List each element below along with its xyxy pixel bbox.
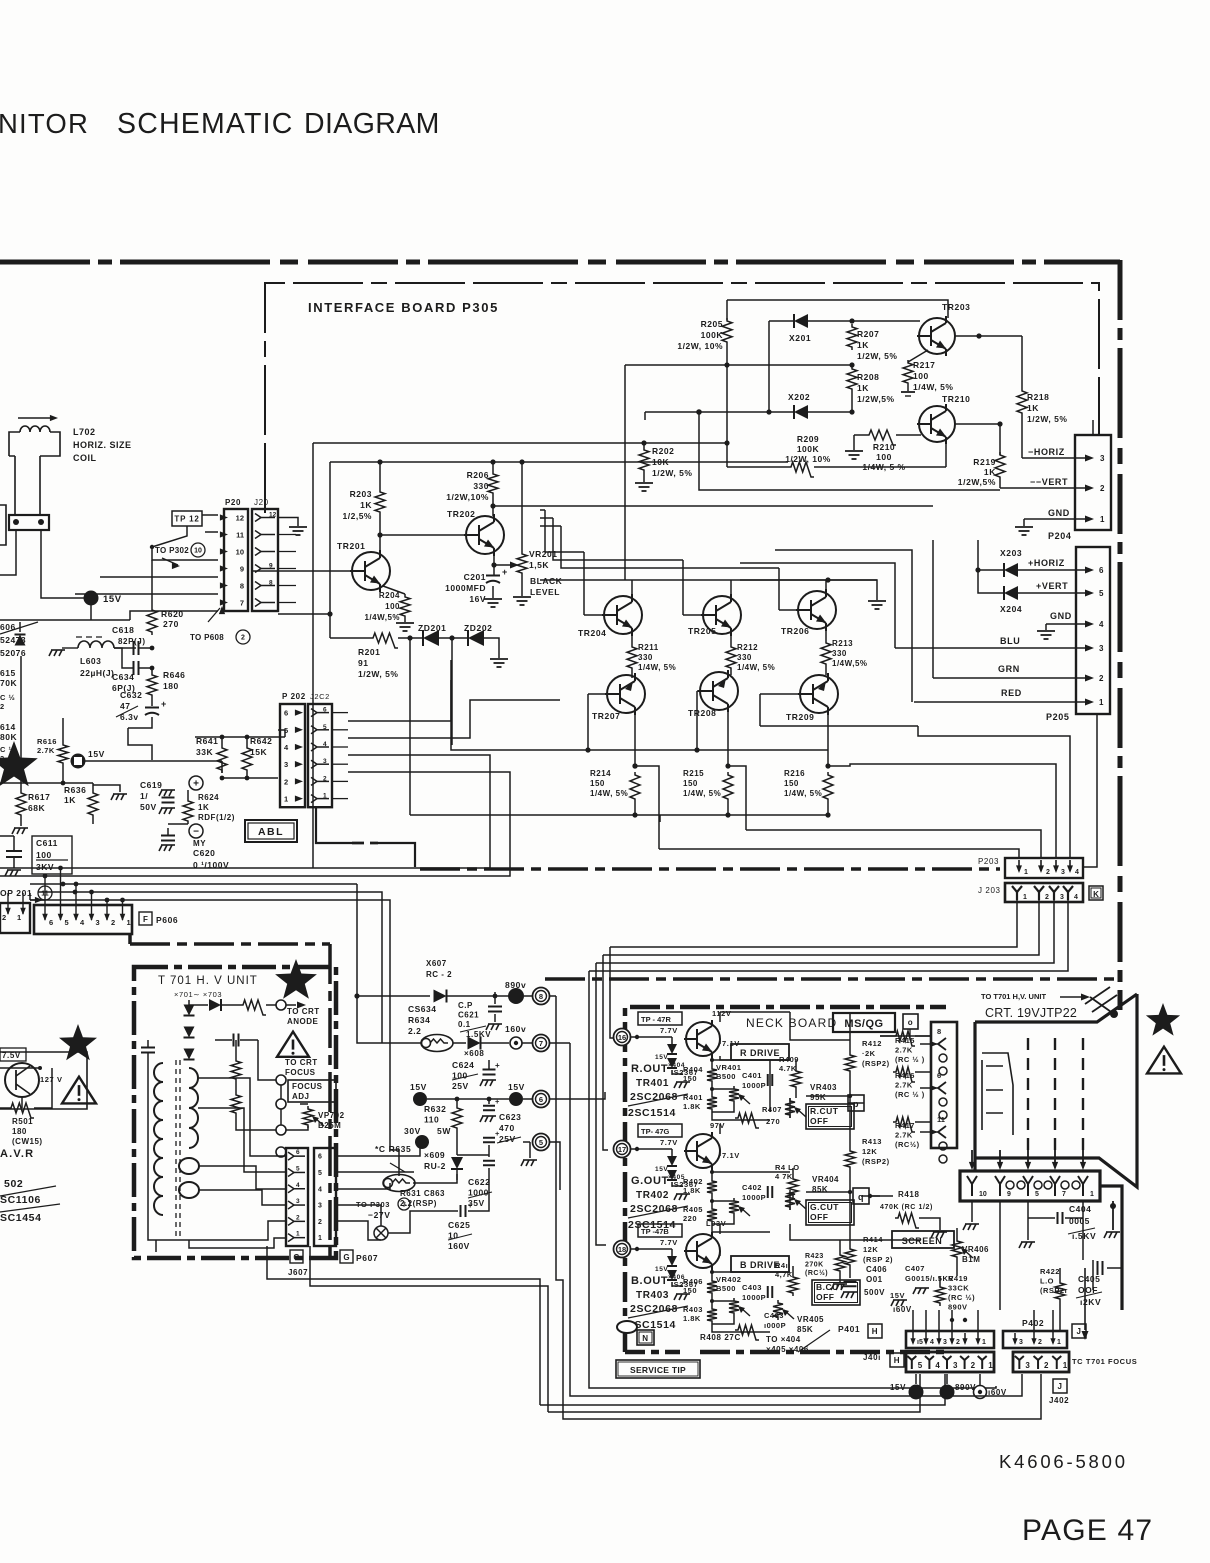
svg-text:1: 1	[1063, 1361, 1068, 1370]
svg-text:TR209: TR209	[786, 712, 815, 722]
svg-text:4: 4	[935, 1361, 940, 1370]
TR207 collector chain	[634, 675, 636, 678]
svg-text:1: 1	[988, 1361, 993, 1370]
svg-text:1000P: 1000P	[742, 1293, 766, 1302]
boxed p	[848, 1095, 864, 1111]
svg-text:10: 10	[979, 1191, 987, 1198]
svg-text:1K: 1K	[64, 795, 76, 805]
R636 ground arrow	[93, 785, 120, 792]
wire X201 left branch down	[768, 321, 770, 412]
svg-text:6: 6	[937, 1071, 941, 1080]
T701 top resistor	[240, 1000, 266, 1015]
left small connector	[0, 903, 30, 933]
svg-text:R.CUT: R.CUT	[810, 1106, 839, 1116]
svg-text:1: 1	[17, 913, 22, 922]
svg-text:GND: GND	[1050, 611, 1072, 621]
svg-text:0.1: 0.1	[458, 1020, 471, 1029]
svg-text:R636: R636	[64, 785, 86, 795]
svg-text:O01: O01	[866, 1275, 883, 1284]
TR209 emitter down	[827, 713, 829, 766]
svg-text:6: 6	[296, 1149, 300, 1156]
svg-text:GRN: GRN	[998, 664, 1020, 674]
T701 top diode horizontal	[209, 999, 221, 1011]
svg-text:1K: 1K	[198, 803, 209, 812]
T701 winding taps to J607	[198, 1078, 286, 1156]
30V node	[415, 1135, 429, 1149]
svg-text:ZD202: ZD202	[464, 623, 493, 633]
15V supply dot	[84, 591, 99, 606]
wire R214 right branch	[635, 766, 659, 849]
svg-text:330: 330	[638, 653, 653, 662]
svg-text:MY: MY	[193, 839, 206, 848]
svg-text:6: 6	[539, 1095, 543, 1104]
diode left edge	[15, 635, 26, 646]
T701 rectifier diodes vertical chain	[184, 1005, 195, 1016]
svg-text:J: J	[1076, 1327, 1081, 1336]
svg-text:R219: R219	[973, 457, 996, 467]
svg-text:15V: 15V	[410, 1082, 427, 1092]
resistor R204 100	[383, 586, 405, 594]
svg-text:1/2W, 10%: 1/2W, 10%	[677, 341, 723, 351]
svg-text:470: 470	[499, 1123, 515, 1133]
160V node	[510, 1037, 522, 1049]
wire bundle interface to bottom left	[348, 660, 451, 721]
svg-text:70K: 70K	[0, 678, 17, 688]
svg-text:CS634: CS634	[408, 1004, 437, 1014]
wire mid rail y365	[625, 364, 852, 366]
svg-text:11: 11	[937, 1115, 945, 1124]
svg-text:R408 27C: R408 27C	[700, 1333, 741, 1342]
TP box TP - 47R	[638, 1012, 682, 1025]
resistor R218 1K	[1021, 336, 1023, 388]
svg-text:TR206: TR206	[781, 626, 810, 636]
resistor R408 270	[735, 1325, 759, 1340]
svg-text:J20: J20	[254, 498, 269, 507]
svg-text:TP -47B: TP -47B	[641, 1227, 669, 1236]
T701 wires inner	[258, 1040, 276, 1080]
svg-text:C624: C624	[452, 1060, 474, 1070]
svg-text:X202: X202	[788, 392, 810, 402]
svg-text:R209: R209	[797, 434, 819, 444]
svg-text:614: 614	[0, 722, 16, 732]
resistor R207 1K	[847, 324, 857, 350]
diode X406 IS2367	[631, 1248, 672, 1250]
capacitor C401	[768, 1074, 773, 1086]
svg-text:TO P608: TO P608	[190, 633, 224, 642]
svg-text:J: J	[1057, 1382, 1062, 1391]
svg-text:5: 5	[318, 1170, 322, 1177]
svg-text:C ½: C ½	[0, 693, 15, 702]
svg-text:33CK: 33CK	[948, 1284, 969, 1293]
svg-text:1,5K: 1,5K	[529, 560, 549, 570]
svg-text:G0015/ı.5KV: G0015/ı.5KV	[905, 1274, 954, 1283]
svg-text:*C R635: *C R635	[375, 1144, 411, 1154]
socket left column	[931, 1022, 957, 1148]
focus pot VP702	[303, 1106, 313, 1128]
resistor R617 68K	[20, 656, 22, 790]
AVR box outline	[0, 1052, 87, 1109]
channel wires	[686, 1250, 689, 1252]
svg-text:TR208: TR208	[688, 708, 717, 718]
svg-text:B.OUT: B.OUT	[631, 1275, 668, 1287]
svg-text:−HORIZ: −HORIZ	[1028, 447, 1065, 457]
capacitor C623 470 25V	[483, 1138, 495, 1143]
CRT neck left edge	[973, 1022, 976, 1171]
svg-text:2SC1514: 2SC1514	[628, 1107, 676, 1119]
svg-text:9: 9	[1007, 1191, 1011, 1198]
wire ZD junction verticals down	[409, 638, 411, 815]
svg-text:TP - 47R: TP - 47R	[641, 1015, 671, 1024]
svg-text:6: 6	[284, 709, 288, 718]
svg-text:7: 7	[1062, 1191, 1066, 1198]
vertical rails in neck board	[769, 1060, 771, 1072]
P401 feeds from above	[912, 1310, 914, 1333]
capacitor C618 82P	[134, 641, 139, 655]
svg-text:1: 1	[1099, 698, 1104, 707]
connector P205	[1076, 547, 1110, 714]
svg-text:TR401: TR401	[636, 1078, 669, 1089]
svg-text:1: 1	[1090, 1191, 1094, 1198]
TR207 base wire	[588, 693, 605, 695]
CRT anode lead	[1060, 996, 1082, 998]
svg-text:J40ı: J40ı	[863, 1353, 881, 1362]
svg-text:R406: R406	[683, 1277, 703, 1286]
svg-text:X204: X204	[1000, 604, 1022, 614]
wire P204 top from border	[1092, 420, 1094, 435]
svg-text:COIL: COIL	[73, 453, 97, 463]
svg-text:2: 2	[318, 1219, 322, 1226]
svg-text:CRT. 19VJTP22: CRT. 19VJTP22	[985, 1006, 1077, 1020]
svg-text:R404: R404	[683, 1065, 703, 1074]
diode X608	[453, 1042, 466, 1044]
svg-text:52076: 52076	[0, 648, 26, 658]
outer border right dash-dot	[1118, 260, 1123, 1010]
wire X203 net up	[977, 540, 979, 570]
wire bottom rail y815	[410, 814, 828, 816]
transistor TR205	[701, 594, 741, 636]
svg-text:1/4W, 5%: 1/4W, 5%	[737, 663, 775, 672]
wire rail y580	[540, 579, 877, 581]
svg-text:R631 C863: R631 C863	[400, 1189, 445, 1198]
TR204 base wire	[584, 614, 602, 616]
resistor R206 330	[490, 459, 495, 464]
main board bus dash-dot	[128, 934, 132, 944]
warning triangle AVR	[62, 1077, 96, 1104]
svg-text:2: 2	[1100, 484, 1105, 493]
svg-text:×701∼ ×703: ×701∼ ×703	[174, 990, 222, 999]
svg-text:p: p	[853, 1099, 859, 1109]
svg-text:TO CRT: TO CRT	[285, 1058, 318, 1067]
interface board bottom boundary dash-dot	[420, 867, 1000, 871]
svg-text:TO CRT: TO CRT	[287, 1007, 320, 1016]
svg-text:1/2W, 10%: 1/2W, 10%	[785, 454, 831, 464]
resistor R215 150	[723, 772, 733, 802]
pot VR406 B1M	[952, 1238, 962, 1260]
svg-text:1K: 1K	[857, 340, 869, 350]
svg-text:RED: RED	[1001, 688, 1022, 698]
zener ZD202	[439, 637, 467, 639]
svg-text:R210: R210	[873, 442, 895, 452]
svg-text:3: 3	[953, 1361, 958, 1370]
wire x625 down to matrix	[624, 365, 626, 580]
svg-text:R216: R216	[784, 769, 805, 778]
svg-text:L.O: L.O	[1040, 1277, 1054, 1286]
connector J402	[1013, 1352, 1069, 1372]
svg-text:3: 3	[1061, 869, 1065, 876]
small box o	[903, 1014, 918, 1029]
resistor R624 1K RDF	[187, 790, 189, 798]
svg-text:R423: R423	[805, 1253, 824, 1260]
capacitor C201 1000MFD 16V	[493, 565, 495, 575]
wire from L702 bar down-left	[0, 530, 16, 575]
svg-text:C406: C406	[866, 1265, 887, 1274]
svg-text:X607: X607	[426, 959, 447, 968]
svg-text:160V: 160V	[448, 1241, 470, 1251]
resistor R407 270	[735, 1113, 759, 1128]
svg-text:4: 4	[323, 741, 327, 748]
inductor L702 horiz size coil	[9, 432, 60, 515]
svg-text:7.1V: 7.1V	[722, 1151, 740, 1160]
svg-text:R204: R204	[379, 591, 400, 600]
TR209 collector	[827, 675, 829, 678]
J202 stubs	[332, 712, 348, 714]
svg-text:1/4W, 5%: 1/4W, 5%	[784, 789, 822, 798]
T701 cap left	[141, 1048, 155, 1053]
resistor R219 1K	[999, 424, 1001, 455]
svg-text:R632: R632	[424, 1104, 446, 1114]
G label P607	[340, 1250, 353, 1263]
svg-text:K4606-5800: K4606-5800	[999, 1451, 1128, 1472]
svg-text:·2K: ·2K	[862, 1049, 876, 1058]
svg-text:ADJ: ADJ	[292, 1092, 310, 1101]
svg-text:OFF: OFF	[810, 1116, 829, 1126]
svg-text:P606: P606	[156, 915, 178, 925]
svg-text:ABL: ABL	[258, 826, 284, 838]
svg-text:15V: 15V	[890, 1291, 905, 1300]
svg-text:180: 180	[12, 1127, 27, 1136]
fusible resistor R631 2.2RSP	[383, 1175, 415, 1192]
svg-text:2: 2	[1046, 869, 1050, 876]
capacitor C634 6P	[134, 661, 139, 675]
svg-text:R208: R208	[857, 372, 879, 382]
wire from L702 bar down	[41, 530, 84, 598]
neck board boundary	[625, 1007, 946, 1352]
svg-text:1/4W, 5%: 1/4W, 5%	[913, 382, 953, 392]
svg-text:4 7K: 4 7K	[775, 1172, 793, 1181]
transistor TR210	[917, 404, 955, 444]
capacitor C611 100 3KV	[32, 836, 72, 874]
pin circle 16	[614, 1029, 631, 1046]
svg-text:A.V.R: A.V.R	[0, 1148, 34, 1160]
svg-text:HORIZ. SIZE: HORIZ. SIZE	[73, 440, 132, 450]
svg-text:7.7V: 7.7V	[660, 1138, 678, 1147]
svg-text:R217: R217	[913, 360, 935, 370]
svg-text:1/4W,5%: 1/4W,5%	[364, 613, 400, 622]
svg-text:B25M: B25M	[318, 1121, 341, 1130]
TP box TP- 47G	[638, 1124, 682, 1137]
T701 HV unit boundary box	[134, 967, 336, 1258]
svg-text:R634: R634	[408, 1015, 430, 1025]
SCREEN box	[892, 1231, 954, 1248]
star on T701	[275, 959, 317, 999]
svg-text:1K: 1K	[1027, 403, 1039, 413]
svg-text:TR210: TR210	[942, 394, 971, 404]
svg-text:(RC ½ ): (RC ½ )	[895, 1055, 925, 1064]
svg-text:68K: 68K	[28, 803, 45, 813]
transistor TR201	[350, 550, 390, 592]
resistor R211 330	[631, 631, 633, 644]
wire from R412 top	[790, 1012, 850, 1040]
svg-text:DIAGRAM: DIAGRAM	[304, 108, 440, 140]
svg-text:1K: 1K	[360, 500, 372, 510]
svg-text:5: 5	[1099, 589, 1104, 598]
wire video rail y506	[493, 505, 933, 507]
diode X404 IS2367	[631, 1036, 672, 1038]
resistor R501 180	[8, 1103, 34, 1118]
svg-text:C407: C407	[905, 1264, 925, 1273]
svg-text:3: 3	[1060, 894, 1064, 901]
wire y726 branch	[760, 725, 918, 727]
svg-text:12: 12	[269, 512, 277, 519]
test point TP12 box	[172, 511, 202, 526]
svg-text:C625: C625	[448, 1220, 470, 1230]
J201 output stubs	[278, 534, 296, 536]
svg-text:110: 110	[424, 1115, 439, 1125]
svg-text:1000P: 1000P	[742, 1193, 766, 1202]
svg-text:16: 16	[618, 1033, 626, 1042]
svg-text:2.7K: 2.7K	[895, 1131, 913, 1140]
svg-text:112V: 112V	[712, 1009, 732, 1018]
svg-text:18: 18	[618, 1245, 626, 1254]
svg-text:R412: R412	[862, 1039, 882, 1048]
connector bar under L702	[9, 515, 49, 530]
svg-text:80K: 80K	[0, 732, 17, 742]
svg-text:5: 5	[918, 1361, 923, 1370]
wire R202 top	[643, 443, 645, 447]
svg-text:PAGE 47: PAGE 47	[1022, 1514, 1153, 1547]
svg-text:NECK BOARD: NECK BOARD	[746, 1016, 837, 1030]
connector F606 P606	[34, 905, 132, 934]
pin circle 17	[614, 1141, 631, 1158]
wires R641/R642 top rail	[195, 736, 285, 738]
svg-text:+HORIZ: +HORIZ	[1028, 558, 1065, 568]
TR208 collector	[727, 672, 729, 675]
svg-text:C401: C401	[742, 1071, 762, 1080]
svg-text:VR404: VR404	[812, 1175, 839, 1184]
star symbol left	[0, 741, 38, 786]
TR202 emitter node	[493, 553, 495, 565]
svg-text:7: 7	[539, 1039, 543, 1048]
wire top rail y300	[727, 300, 948, 318]
svg-text:1: 1	[296, 1231, 300, 1238]
svg-text:7.7V: 7.7V	[660, 1238, 678, 1247]
warning triangle CRT	[1147, 1047, 1181, 1074]
wire R215 right branch	[728, 766, 746, 830]
T701 transformer secondary winding	[179, 1068, 199, 1198]
svg-text:2.7K: 2.7K	[895, 1081, 913, 1090]
TR202 collector	[492, 496, 494, 516]
svg-text:2: 2	[1099, 674, 1104, 683]
svg-text:1/4W, 5%: 1/4W, 5%	[638, 663, 676, 672]
svg-text:R.OUT: R.OUT	[631, 1063, 668, 1075]
svg-text:TO T701 H,V. UNIT: TO T701 H,V. UNIT	[981, 992, 1046, 1001]
grounds under socket	[971, 1201, 973, 1222]
svg-text:10: 10	[236, 548, 244, 557]
svg-text:1: 1	[1024, 869, 1028, 876]
svg-text:5: 5	[65, 918, 69, 927]
svg-text:6: 6	[1099, 566, 1104, 575]
resistor R406 150	[707, 1278, 717, 1296]
T701 core lines	[175, 1060, 177, 1240]
svg-text:TR202: TR202	[447, 509, 476, 519]
svg-text:R215: R215	[683, 769, 704, 778]
svg-text:15K: 15K	[250, 747, 267, 757]
svg-text:C.P: C.P	[458, 1001, 473, 1010]
transistor TR209	[798, 673, 838, 715]
svg-text:C403: C403	[742, 1283, 762, 1292]
svg-text:H: H	[894, 1356, 900, 1365]
svg-text:P20: P20	[225, 498, 241, 507]
svg-text:10: 10	[194, 548, 202, 555]
svg-text:1/4W,5%: 1/4W,5%	[832, 659, 868, 668]
svg-text:160v: 160v	[505, 1024, 526, 1034]
resistor R216 150	[823, 772, 833, 802]
svg-text:R205: R205	[701, 319, 723, 329]
svg-text:VP702: VP702	[318, 1111, 345, 1120]
wire left edge partial box	[0, 505, 6, 545]
resistor R636 1K	[92, 783, 94, 790]
wire J202 pin1 dashdot down	[316, 807, 352, 843]
svg-text:7.1V: 7.1V	[722, 1039, 740, 1048]
svg-text:R413: R413	[862, 1137, 882, 1146]
svg-text:RC - 2: RC - 2	[426, 970, 452, 979]
svg-text:TO P302: TO P302	[155, 546, 189, 555]
star symbol AVR	[59, 1024, 97, 1060]
resistor R642 15K	[242, 745, 252, 773]
svg-text:1/2,5%: 1/2,5%	[343, 511, 372, 521]
svg-text:100: 100	[913, 371, 929, 381]
svg-text:1.8K: 1.8K	[683, 1102, 701, 1111]
svg-text:R214: R214	[590, 769, 611, 778]
wire 15V node	[413, 1092, 427, 1106]
svg-text:2: 2	[1044, 1361, 1049, 1370]
svg-text:SCHEMATIC: SCHEMATIC	[117, 108, 294, 140]
svg-text:C634: C634	[112, 672, 134, 682]
svg-text:R646: R646	[163, 670, 185, 680]
svg-text:6: 6	[323, 707, 327, 714]
svg-text:6: 6	[49, 918, 53, 927]
node TR202 base junction	[379, 515, 381, 552]
K box label	[1089, 886, 1103, 900]
svg-text:P203: P203	[978, 857, 999, 866]
wire rail y462	[330, 461, 788, 463]
svg-text:ı000P: ı000P	[764, 1321, 786, 1330]
svg-text:606: 606	[0, 622, 16, 632]
transistor TR207	[605, 673, 645, 715]
connector P607	[314, 1148, 336, 1246]
svg-text:ANODE: ANODE	[287, 1017, 319, 1026]
svg-text:TP 12: TP 12	[174, 514, 199, 523]
bottom wire runs	[915, 1374, 917, 1384]
svg-text:2: 2	[0, 702, 5, 711]
svg-text:−−VERT: −−VERT	[1030, 477, 1068, 487]
focus nodes circles	[276, 1075, 286, 1085]
svg-text:OFF: OFF	[816, 1292, 835, 1302]
svg-text:3KV: 3KV	[36, 862, 54, 872]
svg-text:K: K	[1093, 890, 1099, 899]
svg-text:15V: 15V	[88, 749, 105, 759]
svg-text:+: +	[468, 1201, 473, 1210]
